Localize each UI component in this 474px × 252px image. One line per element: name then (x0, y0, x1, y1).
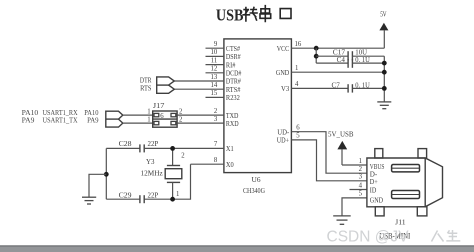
net label PA9 USART1_TX PA9 (22, 116, 99, 125)
svg-text:1: 1 (176, 191, 179, 198)
svg-text:5: 5 (359, 191, 363, 198)
svg-text:13: 13 (211, 74, 218, 81)
svg-text:GND: GND (276, 68, 290, 77)
svg-text:2: 2 (214, 108, 218, 115)
wire VBUS (342, 164, 367, 166)
net label PA10 USART1_RX PA10 (22, 108, 99, 117)
svg-text:RTS: RTS (140, 84, 151, 93)
junction dot left rail (104, 172, 109, 177)
pin 14 RTS# wire to flag (174, 88, 224, 90)
bottom gray band (0, 245, 474, 252)
pin 6 UD- wire (291, 132, 367, 174)
svg-text:8: 8 (214, 157, 218, 164)
pin 11 RI# stub (206, 64, 224, 66)
svg-text:USART1_TX: USART1_TX (43, 116, 79, 125)
svg-text:16: 16 (295, 41, 302, 48)
ground connector (333, 216, 351, 224)
svg-text:Y3: Y3 (146, 157, 155, 166)
watermark CSDN (327, 229, 461, 246)
svg-text:C4: C4 (337, 55, 345, 64)
svg-text:CH340G: CH340G (243, 186, 265, 195)
svg-text:USB: USB (216, 6, 244, 25)
pin 12 DCD# stub (206, 72, 224, 74)
svg-text:J11: J11 (395, 218, 406, 227)
power 5V symbol (379, 12, 388, 49)
GND wire to ground (342, 198, 367, 216)
svg-text:7: 7 (214, 141, 218, 148)
svg-text:C28: C28 (119, 139, 132, 148)
svg-text:3: 3 (359, 174, 363, 181)
svg-text:5V_USB: 5V_USB (328, 131, 354, 139)
junction dot C17 tee (314, 54, 319, 59)
svg-text:V3: V3 (281, 84, 289, 93)
junction dot C4 rail (382, 61, 387, 66)
svg-text:6: 6 (296, 125, 300, 132)
junction dot GND rail (382, 70, 387, 75)
ground right rail (377, 102, 391, 109)
svg-text:U6: U6 (252, 175, 261, 184)
svg-text:5V: 5V (380, 12, 386, 19)
svg-text:2: 2 (359, 166, 363, 173)
svg-text:12MHz: 12MHz (141, 169, 164, 178)
svg-text:2: 2 (181, 152, 185, 159)
right rail wire (383, 56, 385, 102)
capacitor C7 0.1U plates (348, 84, 352, 92)
pin 15 R232 stub (206, 96, 224, 98)
title USB to serial (216, 6, 291, 25)
junction dot VCC branch (314, 46, 319, 51)
svg-text:22P: 22P (148, 139, 159, 148)
capacitor C17 10U (316, 47, 384, 60)
junction dot crystal bottom (170, 197, 175, 202)
svg-text:5: 5 (296, 133, 300, 140)
crystal Y3 12MHz (165, 148, 185, 199)
svg-text:9: 9 (214, 41, 218, 48)
pin 5 UD+ wire (291, 140, 367, 181)
svg-text:D+: D+ (370, 177, 378, 186)
svg-text:0. 1U: 0. 1U (355, 81, 370, 90)
svg-text:10: 10 (211, 49, 218, 56)
svg-text:22P: 22P (148, 191, 159, 200)
wire to ground left (89, 174, 106, 197)
pin 9 CTS# stub (206, 47, 224, 49)
svg-text:11: 11 (211, 57, 218, 64)
DTR RTS harness flag (157, 77, 175, 93)
PA10 PA9 harness flag (106, 111, 123, 127)
pin 1 GND wire (291, 71, 384, 73)
junction dot crystal top (170, 146, 175, 151)
svg-text:CSDN @JV: CSDN @JV (327, 229, 410, 246)
svg-text:RXD: RXD (226, 119, 239, 128)
wire PA9 flag to J17 (123, 122, 153, 124)
svg-text:J17: J17 (153, 101, 165, 110)
svg-text:15: 15 (211, 90, 218, 97)
svg-text:4: 4 (359, 182, 363, 189)
svg-text:3: 3 (214, 116, 218, 123)
svg-text:PA9: PA9 (22, 116, 35, 125)
svg-text:0. 1U: 0. 1U (355, 55, 370, 64)
svg-text:X1: X1 (226, 144, 234, 153)
left rail wire (105, 148, 107, 199)
svg-text:1: 1 (359, 158, 362, 165)
svg-text:1: 1 (147, 117, 150, 124)
ID stub wire (350, 189, 367, 191)
svg-text:14: 14 (211, 82, 218, 89)
wire X0 down to crystal row (144, 164, 190, 199)
svg-text:C7: C7 (332, 81, 340, 90)
capacitor C28 22P (106, 139, 224, 153)
wire VCC branch down (315, 48, 317, 63)
capacitor C4 0.1U (316, 55, 384, 68)
USB connector J11 body (367, 149, 443, 216)
svg-text:4: 4 (295, 81, 299, 88)
ground left (82, 197, 96, 204)
svg-text:ID: ID (370, 186, 377, 195)
svg-text:X0: X0 (226, 160, 234, 169)
capacitor C29 22P (106, 191, 158, 204)
svg-text:1: 1 (295, 65, 298, 72)
pin 4 V3 wire with C7 (291, 87, 348, 89)
junction dot C7 rail (382, 86, 387, 91)
wire J17 to RXD pin 3 (177, 122, 224, 124)
svg-text:1: 1 (147, 109, 150, 116)
svg-text:UD+: UD+ (277, 136, 290, 145)
svg-text:C29: C29 (119, 191, 132, 200)
pin 13 DTR# wire to flag (174, 80, 224, 82)
svg-text:VCC: VCC (277, 44, 289, 53)
pin 16 VCC wire (291, 47, 384, 49)
svg-text:GND: GND (370, 195, 384, 204)
svg-text:6: 6 (160, 113, 164, 120)
svg-text:12: 12 (211, 66, 218, 73)
pin 10 DSR# stub (206, 55, 224, 57)
jumper header J17 (153, 111, 177, 127)
svg-text:R232: R232 (226, 93, 240, 102)
wire PA10 flag to J17 (123, 114, 153, 116)
svg-text:PA9: PA9 (87, 116, 99, 125)
pin 8 X0 (191, 163, 224, 165)
wire J17 to TXD pin 2 (177, 114, 224, 116)
chip U6 outline (224, 39, 292, 173)
power 5V_USB symbol (328, 131, 354, 166)
